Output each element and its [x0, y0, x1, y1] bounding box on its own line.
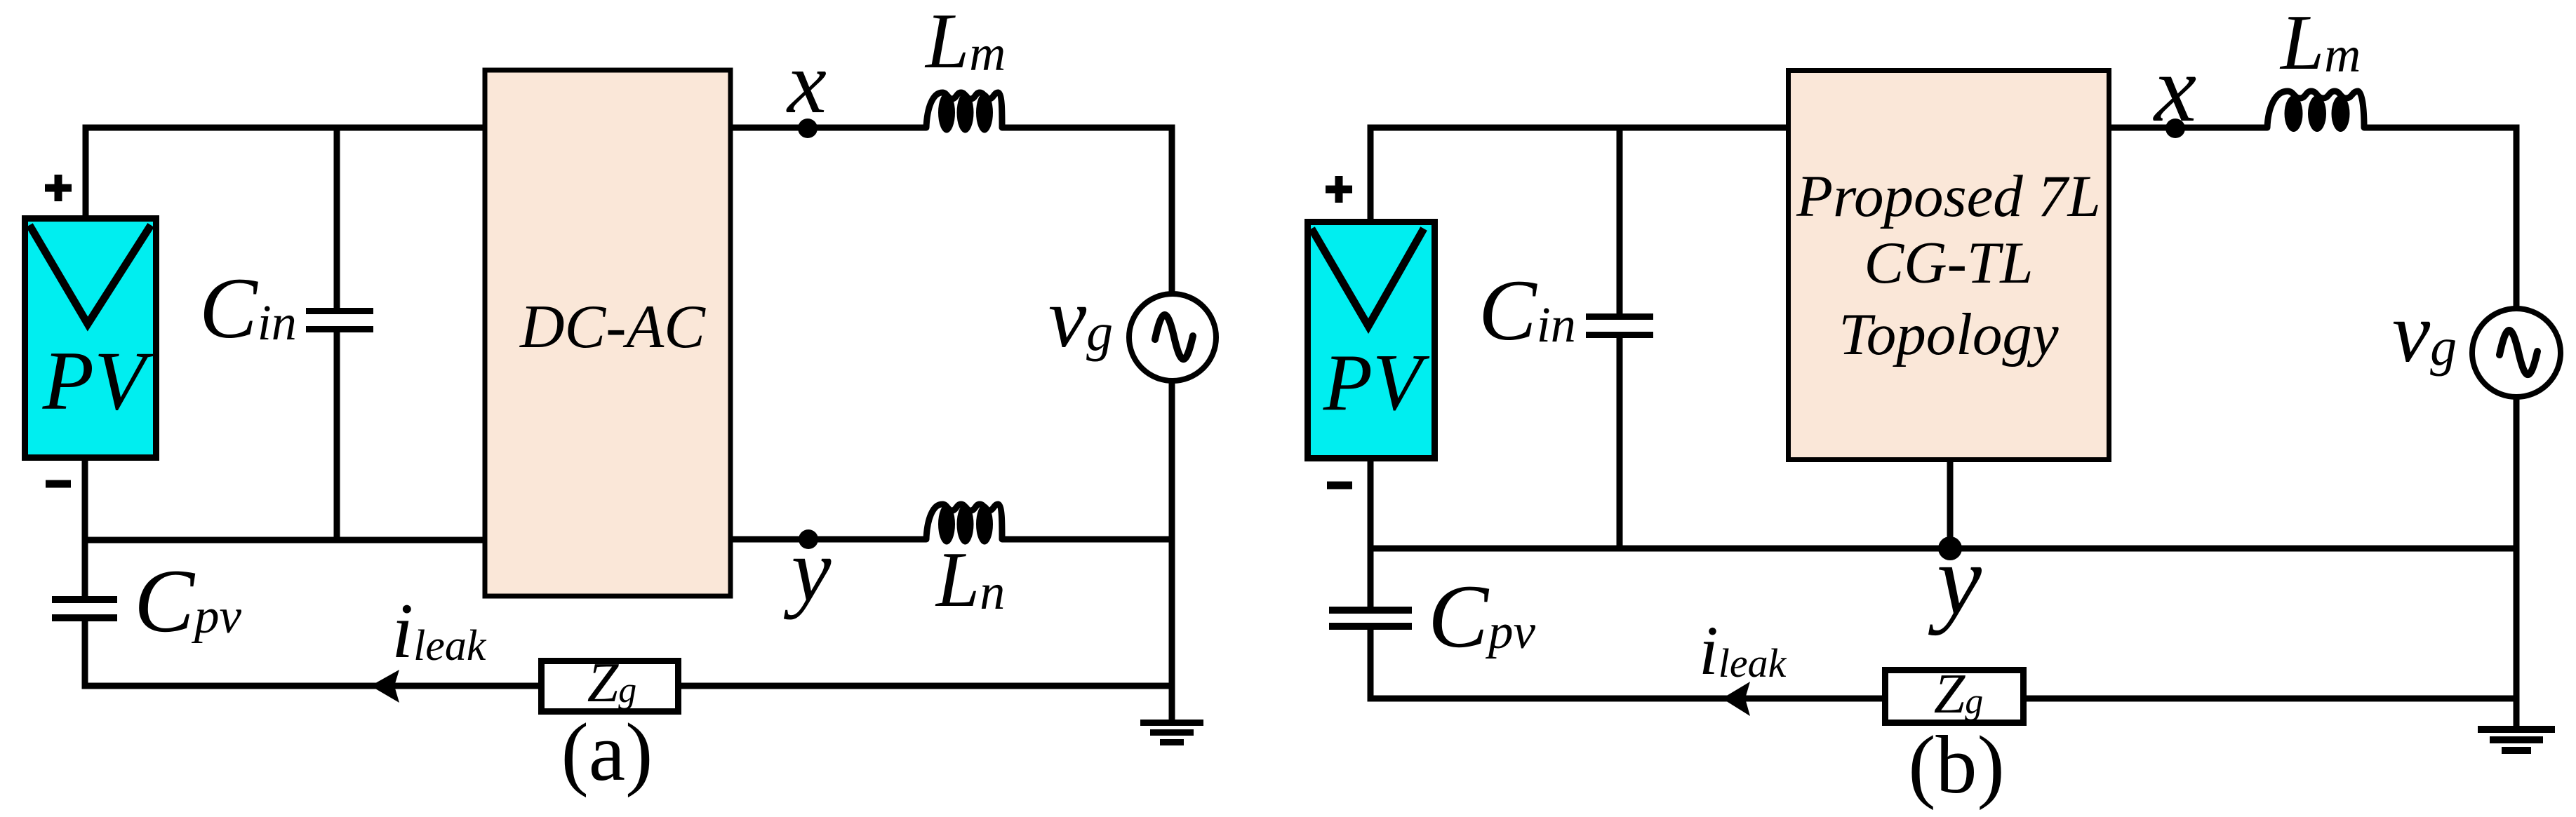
svg-text:y: y	[1928, 525, 1982, 636]
pv V symbol (a)	[29, 225, 151, 324]
source vg circle (a)	[1129, 294, 1216, 381]
wire: PV bottom down to Cpv (a)	[82, 457, 88, 600]
inductor Ln (a)	[926, 504, 1002, 545]
wire: block bottom stub to node y (b)	[1947, 460, 1954, 548]
wire: block to node x (b)	[2109, 125, 2267, 131]
svg-text:(b): (b)	[1908, 719, 2005, 811]
minus terminal (b)	[1327, 482, 1352, 489]
ground (b)	[2478, 726, 2555, 754]
svg-text:Cin: Cin	[1479, 262, 1576, 358]
minus terminal (a)	[46, 480, 71, 488]
svg-text:vg: vg	[1048, 271, 1113, 365]
wire: return right segment (b)	[2024, 696, 2516, 702]
wire: top bus (a)	[83, 125, 483, 131]
node x dot (b)	[2165, 119, 2185, 138]
wire: PV top to bus corner (b)	[1368, 131, 1374, 222]
svg-text:Topology: Topology	[1838, 302, 2059, 367]
wire: Lm to corner and down to vg (b)	[2364, 128, 2516, 311]
svg-text:Ln: Ln	[935, 536, 1005, 623]
svg-text:y: y	[784, 520, 832, 620]
wire: vg down to ground (a)	[1169, 379, 1175, 720]
inductor Lm (b)	[2267, 91, 2364, 132]
plus terminal (a)	[45, 175, 72, 201]
wire: vg down to ground (b)	[2514, 395, 2520, 726]
impedance Zg box (b)	[1886, 670, 2024, 723]
source vg circle (b)	[2472, 309, 2561, 397]
wire: return left segment (b)	[1368, 696, 1885, 702]
svg-text:x: x	[2153, 36, 2196, 142]
pv module PV (a)	[25, 219, 156, 458]
inductor Lm (a)	[926, 93, 1002, 133]
plus terminal (b)	[1326, 176, 1352, 203]
capacitor Cpv (b)	[1329, 607, 1412, 614]
svg-text:CG-TL: CG-TL	[1864, 230, 2034, 296]
svg-text:Cpv: Cpv	[134, 551, 242, 651]
node x dot (a)	[798, 119, 817, 138]
wire: Lm to corner and down to vg (a)	[1002, 128, 1172, 295]
ground (a)	[1140, 720, 1203, 745]
topology block (b)	[1789, 71, 2109, 460]
node y dot (b)	[1938, 536, 1962, 560]
wire: left bus (a)	[82, 537, 483, 543]
capacitor Cin (a)	[334, 128, 340, 311]
node y dot (a)	[799, 529, 818, 549]
svg-text:vg: vg	[2392, 285, 2457, 380]
capacitor Cin (b)	[1617, 128, 1623, 317]
svg-text:Lm: Lm	[924, 0, 1006, 85]
svg-text:PV: PV	[42, 334, 154, 427]
svg-text:x: x	[786, 34, 827, 132]
wire: return right segment (a)	[681, 683, 1172, 689]
impedance Zg box (a)	[542, 661, 679, 712]
svg-text:Proposed 7L: Proposed 7L	[1796, 163, 2101, 229]
svg-text:PV: PV	[1323, 338, 1430, 427]
wire: y bus (b)	[1368, 546, 2520, 552]
wire: top bus (b)	[1368, 125, 1787, 131]
capacitor Cpv (a)	[52, 596, 117, 603]
arrow ileak (b)	[1722, 682, 1750, 716]
wire: y bus right (a)	[731, 536, 926, 543]
svg-text:Lm: Lm	[2279, 0, 2361, 86]
wire: PV top to bus corner	[83, 131, 89, 219]
arrow ileak (a)	[371, 670, 399, 703]
svg-text:Cin: Cin	[199, 260, 297, 356]
wire: Ln to right vertical (a)	[1002, 536, 1175, 543]
svg-text:ileak: ileak	[392, 588, 487, 675]
wire: PV bottom down to Cpv (b)	[1368, 457, 1374, 609]
svg-text:(a): (a)	[561, 706, 653, 798]
wire: return left segment (a)	[82, 683, 542, 689]
pv module PV (b)	[1308, 222, 1435, 459]
svg-text:DC-AC: DC-AC	[519, 293, 706, 361]
svg-text:Cpv: Cpv	[1428, 566, 1536, 666]
pv V symbol (b)	[1312, 229, 1424, 326]
inverter block DC-AC (a)	[485, 70, 730, 596]
svg-text:ileak: ileak	[1699, 612, 1787, 689]
wire: block to node x (a)	[731, 125, 926, 131]
